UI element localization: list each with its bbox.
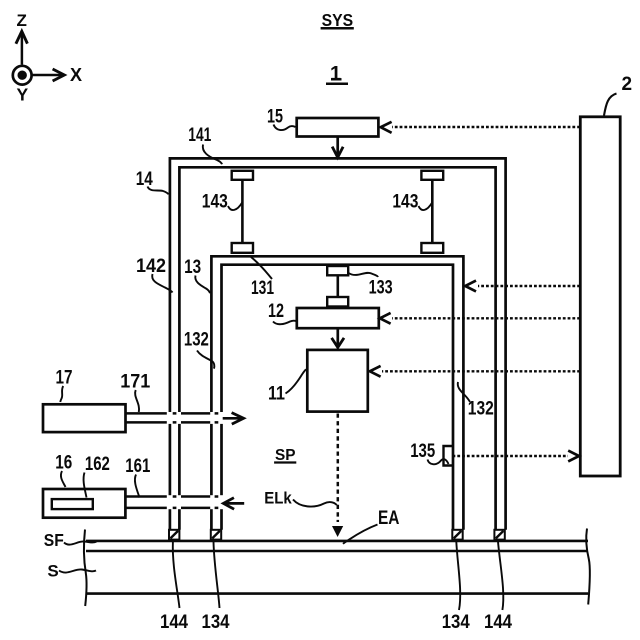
frame 14 outer outline [170,158,506,529]
svg-text:135: 135 [410,441,435,462]
svg-text:16: 16 [55,453,72,474]
X axis arrow [33,69,65,81]
hanger 143 left bottom mount [232,243,253,253]
svg-text:144: 144 [160,612,188,633]
leader 143 left [228,203,242,211]
leader 143 right [419,203,433,211]
dashed signal line 135 to 2 [453,451,580,462]
leader 13 [195,276,210,294]
mount 133 lower block [327,297,348,307]
leader S [59,569,96,572]
title SYS [321,10,354,30]
svg-text:162: 162 [85,454,110,475]
leader 135 [428,459,449,464]
svg-text:EA: EA [378,508,400,529]
svg-text:Z: Z [17,11,27,30]
arrow 12 to 11 [332,328,344,347]
box 162 inside 16 [52,499,93,509]
arrow at pipe 161 outlet [223,498,244,510]
dashed control line 2 to 12 [380,313,580,324]
dashed control line 2 to 15 [381,122,580,133]
leader 132 left [197,351,214,369]
leader 134 bottom right [456,542,460,611]
leader EA [343,525,378,544]
svg-text:133: 133 [369,278,393,299]
svg-text:161: 161 [125,456,150,477]
beam 161 bottom edge [127,507,219,510]
svg-text:134: 134 [202,612,230,633]
hanger 143 right top mount [421,171,443,180]
svg-text:143: 143 [202,192,228,213]
svg-text:144: 144 [484,612,512,633]
leader 144 bottom left [173,542,180,609]
beam 161 top edge [127,495,219,498]
foot 134 right hatched [452,530,462,540]
mount 133 rod [336,275,339,297]
beam 171 top edge [127,412,219,415]
coordinate axes origin (Y axis symbol) [13,66,32,85]
svg-text:17: 17 [56,368,73,389]
beam gaps in frame 14 left wall [167,412,182,509]
svg-text:ELk: ELk [264,489,292,508]
svg-text:1: 1 [330,63,341,85]
box 17 [43,404,126,432]
svg-text:131: 131 [251,278,274,299]
dashed control line 2 to 11 [370,366,580,377]
leader 142 [152,274,172,293]
svg-text:SF: SF [44,530,64,550]
arrow beam 171 [223,413,244,425]
foot 144 right hatched [494,530,504,540]
leader 162 [84,473,87,498]
svg-text:Y: Y [17,85,29,105]
leader 11 [286,369,307,393]
svg-text:132: 132 [468,399,494,420]
hanger 143 left rod [241,180,244,243]
svg-text:15: 15 [267,106,283,127]
leader 132 right [458,382,470,402]
label SP underlined [274,447,296,464]
leader 134 bottom left [214,542,220,609]
leader 171 [135,390,139,412]
mount 133 upper block [327,266,348,275]
surface SF line [86,540,588,543]
leader 17 [60,386,63,402]
frame 14 inner outline [179,167,495,530]
svg-text:X: X [70,65,82,85]
frame 13 inner outline [222,265,454,530]
stage right break line [586,529,590,605]
leader 141 [203,145,222,165]
svg-text:2: 2 [622,74,633,95]
foot 144 left hatched [169,530,179,540]
foot 134 left hatched [211,530,221,540]
svg-text:143: 143 [392,192,418,213]
box 16 [43,489,125,518]
svg-text:14: 14 [136,169,153,190]
leader 15 [274,125,296,131]
svg-text:134: 134 [442,612,470,633]
leader 131 [251,257,272,279]
title 1 [326,63,348,85]
svg-text:132: 132 [184,330,209,351]
beam 171 bottom edge [127,421,219,424]
sensor 135 bracket [444,446,453,466]
svg-text:11: 11 [268,384,285,405]
leader SF [64,541,97,544]
arrowhead ELk at surface EA [332,526,343,537]
leader 16 [61,471,66,487]
leader 14 [148,187,169,195]
hanger 143 left top mount [232,171,253,180]
leader ELk [293,500,337,507]
hanger 143 right bottom mount [421,243,443,253]
beam gaps in frame 13 left wall [209,412,224,509]
leader 12 [273,321,297,325]
svg-text:S: S [47,562,58,581]
stage left break line [84,530,87,607]
leader 2 [604,94,617,116]
stage bottom line [86,592,588,595]
leader 133 [349,273,379,277]
svg-text:SYS: SYS [322,10,354,30]
controller box 2 [580,117,620,476]
svg-text:141: 141 [188,125,211,146]
dashed control line 2 to frame 13 wall [465,281,580,292]
svg-text:12: 12 [268,301,284,322]
box 11 [307,350,368,412]
svg-text:13: 13 [184,257,201,278]
Z axis arrow [16,31,28,64]
svg-text:171: 171 [120,372,150,393]
box 15 [297,118,379,137]
arrow 15 to frame 14 [332,137,343,157]
leader 144 bottom right [498,542,503,611]
leader 161 [135,475,140,498]
hanger 143 right rod [431,180,434,243]
svg-text:142: 142 [136,256,166,277]
dashed beam line ELk from box 11 to surface [337,414,340,523]
box 12 [297,308,379,328]
frame 13 outer outline [211,256,463,530]
stage top second line [86,550,588,552]
